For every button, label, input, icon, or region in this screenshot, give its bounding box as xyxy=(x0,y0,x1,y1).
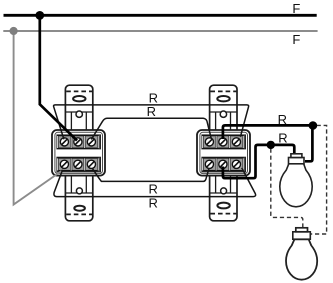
S1 terminal screws xyxy=(60,138,95,169)
wire: S2 output to lamp junction 1 xyxy=(223,125,313,139)
S1 terminal 2 xyxy=(72,136,85,149)
S1 top terminal row xyxy=(57,135,101,149)
S1 bottom terminal row xyxy=(57,157,101,172)
lamp L1 cap base xyxy=(289,158,305,164)
node: lamp junction 1 xyxy=(309,121,318,130)
wire: neutral drop to S1 (gray) xyxy=(14,31,62,205)
lamp L2 cap tip xyxy=(296,228,308,232)
svg-text:F: F xyxy=(292,1,300,16)
S2 terminal screws xyxy=(205,138,240,169)
lamp L2 bulb xyxy=(286,239,317,279)
node: lamp junction 2 xyxy=(267,141,275,149)
S1 terminal separators xyxy=(58,136,99,170)
S2 terminal separators xyxy=(203,136,244,170)
switch S2 top mounting slot xyxy=(217,96,229,101)
wire: junction 1 down to lamp L1 xyxy=(305,125,312,161)
node: phase junction xyxy=(35,11,44,20)
svg-text:R: R xyxy=(278,130,287,145)
S2 terminal 1 xyxy=(203,136,216,149)
switch S1 top screw xyxy=(76,111,82,117)
switch S2 top screw xyxy=(220,111,226,117)
lamp L1 cap tip xyxy=(291,154,302,158)
switch S2 strap xyxy=(210,85,237,221)
S2 bottom terminal row xyxy=(202,157,246,172)
switch S2 body top edge xyxy=(210,111,237,113)
dashed wire: junction 1 to lamp L2 xyxy=(311,125,327,234)
switch S1 top mounting slot xyxy=(73,96,85,101)
switch S2 terminal block xyxy=(197,130,250,176)
S2 terminal 4 xyxy=(203,158,216,171)
lamp L1 bulb xyxy=(280,164,312,207)
switch S2 body left edge xyxy=(215,112,217,193)
wire: neutral feed line F (gray) xyxy=(3,30,317,32)
switch S1 body top edge xyxy=(65,111,92,113)
wire: phase drop to S1 xyxy=(40,15,77,141)
S2 terminal 2 xyxy=(217,136,230,149)
wire: traveler R2 xyxy=(91,118,211,139)
S1 terminal 3 xyxy=(85,136,98,149)
svg-text:R: R xyxy=(149,181,158,196)
switch S2 strap bottom dashed line xyxy=(210,213,236,215)
wire: traveler R4 xyxy=(54,168,256,197)
switch S1 strap xyxy=(65,85,92,221)
dashed wire: junction 2 to lamp L2 xyxy=(271,149,303,229)
svg-text:R: R xyxy=(149,196,158,211)
node: neutral junction xyxy=(10,27,18,35)
wire: traveler R3 xyxy=(92,168,209,181)
svg-text:R: R xyxy=(147,104,156,119)
wire: junction 2 to lamp L1 cap xyxy=(271,145,295,155)
lamp L2 cap base xyxy=(293,232,311,239)
switch S1 body right edge xyxy=(85,112,87,193)
switch S1 bottom screw xyxy=(76,188,82,194)
wire: phase feed line F (black) xyxy=(4,14,317,17)
S2 top terminal row xyxy=(202,135,246,149)
switch S2 bottom screw xyxy=(221,188,227,194)
wire: S2 output to lamp junction 2 xyxy=(223,145,271,178)
switch S1 strap top dashed line xyxy=(66,90,92,92)
S2 terminal 6 xyxy=(230,158,243,171)
switch S1 body left edge xyxy=(70,112,72,193)
S2 terminal 5 xyxy=(217,158,230,171)
switch S2 body bottom edge xyxy=(210,192,237,194)
S1 terminal 4 xyxy=(58,158,71,171)
switch S2 strap top dashed line xyxy=(210,90,236,92)
switch S2 bottom mounting slot xyxy=(217,203,229,209)
S1 terminal 6 xyxy=(85,158,98,171)
svg-text:F: F xyxy=(292,32,300,47)
wire: traveler R1 xyxy=(54,105,249,139)
switch S1 terminal block xyxy=(52,130,105,176)
S1 terminal 1 xyxy=(58,136,71,149)
S2 terminal 3 xyxy=(230,136,243,149)
svg-text:R: R xyxy=(278,112,287,127)
switch S1 strap bottom dashed line xyxy=(66,213,92,215)
S1 terminal 5 xyxy=(72,158,85,171)
switch S1 bottom mounting slot xyxy=(74,206,85,211)
switch S2 body right edge xyxy=(230,112,232,193)
switch S1 body bottom edge xyxy=(65,192,92,194)
